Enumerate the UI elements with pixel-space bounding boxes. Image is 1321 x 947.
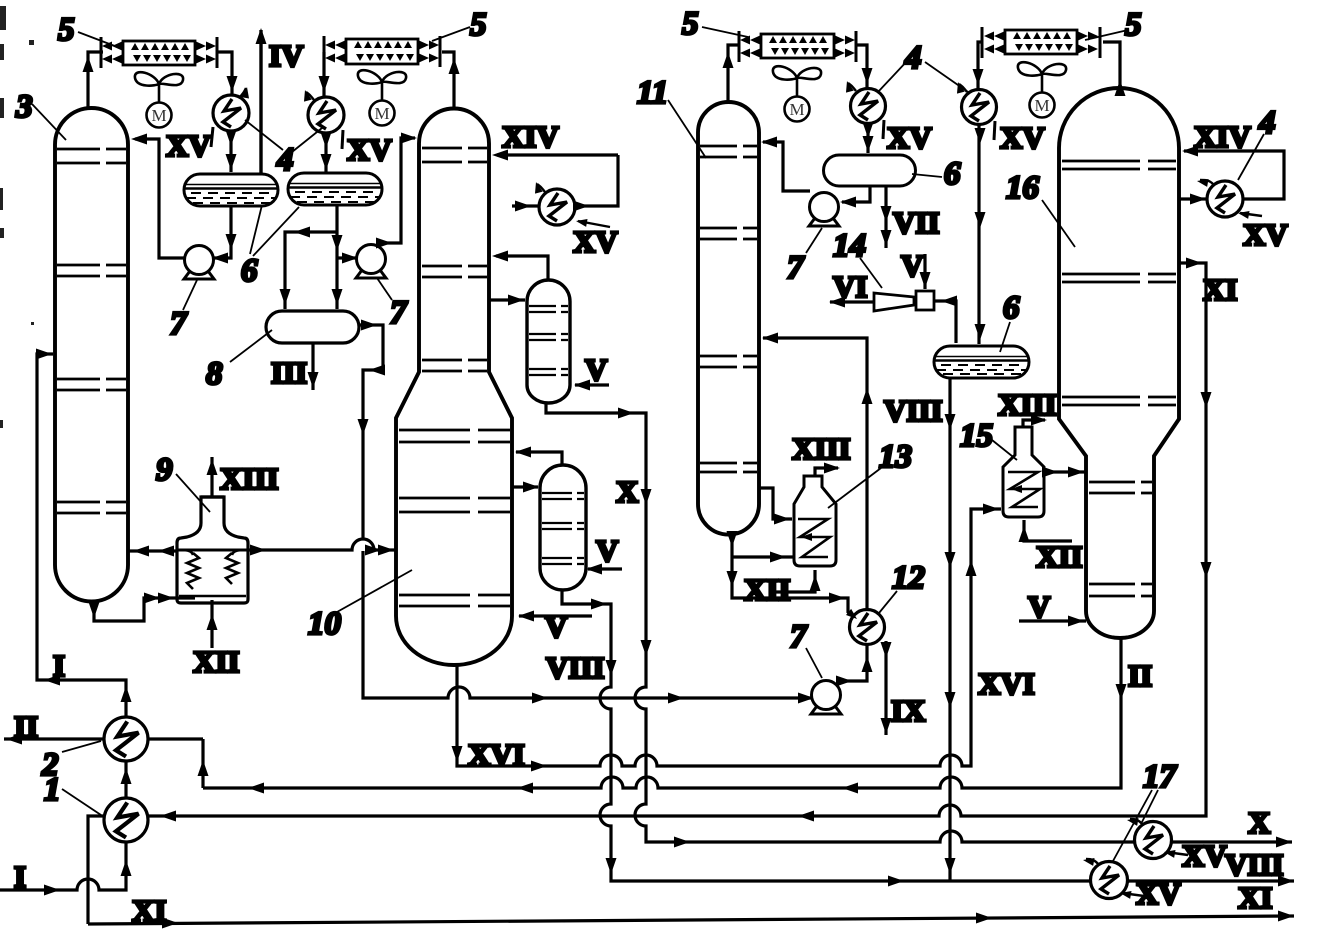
label 6 at drum #3 [912, 156, 961, 192]
svg-text:XI: XI [132, 893, 166, 928]
condenser 4 #B [954, 81, 996, 140]
svg-text:XIV: XIV [1194, 119, 1251, 154]
stream V into stripper 1 [574, 380, 609, 391]
svg-text:IX: IX [891, 693, 926, 728]
svg-text:VII: VII [893, 205, 940, 240]
fan and motor M #2 [358, 70, 406, 125]
wire stripper 2 overhead to column 10 [515, 447, 562, 466]
wire ejector suction from drum 6 #4 [934, 296, 957, 344]
wire stripper 1 bottoms (stream X) down [546, 403, 1292, 848]
column 11 trays [700, 146, 757, 472]
stream V into ejector [920, 254, 931, 289]
label 10 [308, 570, 412, 642]
svg-text:16: 16 [1006, 170, 1040, 206]
label 4 at heat exchanger 4 #C [1238, 105, 1276, 180]
pumparound wire column 16 to heat exchanger 4 #C [1179, 146, 1284, 205]
furnace 15 [1003, 427, 1044, 517]
svg-text:V: V [596, 533, 619, 568]
svg-text:V: V [901, 248, 924, 283]
condenser 4 #2 [301, 89, 344, 149]
stream XIII outlet of furnace 9 [207, 457, 218, 497]
svg-text:XIII: XIII [998, 387, 1057, 422]
svg-text:10: 10 [308, 606, 341, 642]
svg-text:XVI: XVI [978, 666, 1035, 701]
stream II outlet wire through HX2 [4, 734, 209, 789]
svg-text:XI: XI [1203, 272, 1237, 307]
svg-text:XV: XV [1182, 838, 1227, 873]
wire drum 6 #2 bottoms down to drum 8 [332, 206, 343, 309]
svg-text:II: II [14, 709, 38, 744]
label 13 [828, 439, 912, 508]
label 7 at pump #1 [170, 280, 197, 342]
fan and motor M #4 [1018, 62, 1066, 117]
svg-text:4: 4 [1258, 105, 1276, 141]
label 7 at pump #4 [790, 619, 822, 678]
heat exchanger 1 [104, 798, 148, 842]
wire drum 6 #1 to pump 7 #1 [212, 206, 237, 264]
wire column 16 overhead to air cooler 5 #4 [1103, 42, 1126, 96]
label 2 [41, 741, 101, 783]
heat exchanger 17 upper [1126, 816, 1188, 858]
drum 6 #2 (reflux drum with liquid) [288, 173, 382, 205]
label 4 (leaders to condensers A and B) [878, 40, 968, 92]
svg-text:VIII: VIII [546, 650, 605, 685]
label 6 (two leaders to drums) [241, 205, 299, 289]
svg-text:XV: XV [887, 120, 932, 155]
svg-text:XV: XV [166, 128, 211, 163]
furnace 13 [794, 476, 836, 566]
wire stripper 1 overhead to column 10 [492, 251, 548, 281]
air cooler 5 #3 [739, 31, 856, 62]
wire condenser 4 #A to drum 6 #3 [863, 122, 874, 153]
label 9 [156, 452, 210, 512]
svg-text:11: 11 [637, 75, 668, 111]
svg-text:X: X [616, 474, 639, 509]
svg-text:XII: XII [744, 572, 791, 607]
wire column 10 draw to stripper 2 [512, 482, 539, 493]
wire condenser 4 #B to drum 6 #4 [975, 125, 986, 344]
svg-text:XV: XV [1243, 217, 1288, 252]
svg-text:9: 9 [156, 452, 173, 488]
svg-text:XII: XII [193, 644, 240, 679]
pump 7 #3 [809, 193, 839, 227]
svg-text:6: 6 [1003, 290, 1020, 326]
svg-text:5: 5 [470, 7, 487, 43]
label 12 [879, 560, 925, 613]
svg-text:V: V [545, 609, 568, 644]
svg-text:7: 7 [170, 306, 188, 342]
wire furnace 15 outlet to column 16 [1042, 467, 1086, 478]
fan and motor M #1 [135, 72, 183, 127]
wire air cooler to condenser 4 #1 [217, 52, 238, 96]
label 15 [960, 418, 1017, 460]
svg-text:XV: XV [347, 132, 392, 167]
svg-text:3: 3 [15, 89, 33, 125]
svg-text:17: 17 [1143, 759, 1178, 795]
label 7 at pump #3 [787, 228, 822, 286]
svg-text:5: 5 [682, 6, 699, 42]
reflux wire pump 7 #3 to column 11 top [761, 137, 810, 192]
svg-text:XIV: XIV [502, 119, 559, 154]
svg-text:VI: VI [833, 269, 867, 304]
svg-text:6: 6 [944, 156, 961, 192]
stream XII into furnace 15 [1019, 520, 1073, 542]
air cooler 5 #1 [101, 37, 217, 68]
svg-text:II: II [1128, 658, 1152, 693]
label 14 [833, 228, 882, 288]
label 5 #4 [1085, 7, 1142, 43]
furnace 9 outlet wire to column 10 [248, 539, 396, 556]
heat exchanger 17 lower [1082, 856, 1144, 899]
furnace 9 outlet wire to column 3 [128, 546, 177, 557]
condenser 4 #1 [211, 86, 251, 147]
column 3 trays [57, 149, 126, 513]
wire drum 6 #3 to pump 7 #3 [840, 186, 870, 208]
heat exchanger 4 #3 [532, 181, 610, 227]
wire air cooler #3 to condenser 4 #A [856, 45, 873, 89]
wire air cooler #4 to condenser 4 #B [973, 42, 984, 90]
label 6 at drum #4 [1000, 290, 1020, 352]
wire column 11 bottoms to furnace 13 and heat exchanger 12 [727, 531, 860, 622]
column 11 [698, 102, 759, 535]
svg-text:VIII: VIII [884, 393, 943, 428]
wire air cooler #2 to condenser 4 #2 [319, 52, 330, 97]
drum 6 #1 (reflux drum with liquid) [184, 174, 278, 206]
label 11 [637, 75, 706, 158]
label 7 at pump #2 [377, 278, 408, 331]
svg-text:X: X [1248, 805, 1271, 840]
pump 7 #4 [811, 681, 841, 715]
wire column 10 overhead to air cooler 5 #2 [442, 52, 460, 108]
condenser 4 #A [843, 80, 885, 139]
stream XIII from furnace 13 [815, 463, 840, 477]
wire drum 6 #2 to pump 7 #2 [337, 253, 358, 264]
label 17 with leaders [1113, 759, 1178, 861]
heat exchanger 4 #C [1196, 177, 1262, 219]
stream VIII from drum 6 #4 [945, 378, 956, 881]
stream XII into furnace 13 [769, 570, 821, 592]
svg-text:5: 5 [58, 12, 75, 48]
fan and motor M #3 [773, 66, 821, 121]
svg-text:I: I [14, 859, 26, 894]
svg-text:III: III [271, 355, 307, 390]
svg-text:XIII: XIII [792, 431, 851, 466]
drum 6 #4 (with liquid) [934, 346, 1029, 378]
wire HX2 to column 3 feed [36, 349, 132, 718]
wire column 10 bottoms (stream XVI) [452, 504, 1002, 772]
wire column 11 feed via heat exchanger 12 [762, 333, 873, 625]
side stripper 2 trays [542, 493, 584, 564]
svg-text:12: 12 [892, 560, 925, 596]
label 1 [44, 772, 101, 815]
label 8 [206, 330, 272, 392]
stream I feed inlet wire [0, 842, 132, 896]
svg-text:1: 1 [44, 772, 61, 808]
svg-text:15: 15 [960, 418, 993, 454]
svg-text:4: 4 [904, 40, 922, 76]
wire HX1 to HX2 [121, 761, 132, 798]
label 3 [15, 89, 66, 140]
wire column 11 side draw to furnace 13 [759, 488, 792, 525]
pump 7 #1 [184, 246, 214, 280]
side stripper 1 trays [529, 306, 568, 375]
stream IX from heat exchanger 12 [881, 641, 892, 735]
svg-text:XIII: XIII [220, 461, 279, 496]
wire column 3 bottoms to furnace 9 [89, 593, 196, 622]
stream V into column 16 [1019, 616, 1086, 627]
wire column 3 overhead to air cooler [83, 52, 104, 108]
wire column 11 overhead to air cooler 5 #3 [723, 45, 741, 102]
svg-text:7: 7 [390, 295, 408, 331]
svg-text:7: 7 [790, 619, 808, 655]
side stripper 2 [540, 465, 586, 590]
column 3 [55, 108, 128, 602]
stream III from drum 8 [308, 343, 319, 390]
air cooler 5 #2 [324, 36, 440, 67]
svg-text:XVI: XVI [468, 737, 525, 772]
svg-text:XV: XV [573, 224, 618, 259]
svg-text:V: V [1028, 589, 1051, 624]
svg-text:IV: IV [269, 38, 304, 73]
label 16 [1006, 170, 1075, 247]
label 5 #2 [432, 7, 487, 43]
stream XIII from furnace 15 [1023, 415, 1047, 428]
svg-text:5: 5 [1125, 7, 1142, 43]
stream V into stripper 2 [586, 564, 622, 575]
reflux wire pump 7 #2 to column 10 top [376, 133, 417, 249]
wire condenser 4 #1 to drum 6 #1 [226, 130, 237, 172]
svg-text:VIII: VIII [1225, 847, 1284, 882]
svg-text:V: V [585, 352, 608, 387]
furnace 9 [177, 497, 248, 603]
wire drum 6 #2 to drum 8 (left branch) [280, 227, 338, 310]
wire pump 7 #4 to heat exchanger 12 [836, 645, 873, 687]
heat exchanger 12 [850, 610, 885, 645]
stream XIV line into column 10 [492, 150, 618, 161]
stream VI from ejector [829, 297, 874, 308]
svg-text:6: 6 [241, 253, 258, 289]
column 10 [396, 109, 512, 666]
drum 8 [266, 311, 359, 343]
label 5 #3 [682, 6, 748, 42]
pump 7 #2 [356, 245, 386, 279]
svg-text:XV: XV [1136, 876, 1181, 911]
stream V into column 10 bottom [518, 611, 592, 622]
stream XI bottom run [88, 911, 1294, 929]
wire stripper 2 bottoms (stream VIII) down [562, 590, 1294, 887]
drum 6 #3 [824, 155, 916, 186]
stream XI side draw from column 16 [88, 258, 1212, 925]
reflux wire pump 7 #1 to column 3 top [131, 134, 184, 259]
svg-text:7: 7 [787, 250, 805, 286]
ejector 14 [874, 291, 934, 311]
stream VII from drum 6 #3 [881, 186, 892, 248]
side stripper 1 [527, 280, 570, 403]
svg-text:XI: XI [1238, 880, 1272, 915]
column 10 trays [399, 148, 510, 606]
stream II from column 16 bottoms [203, 638, 1127, 794]
svg-text:8: 8 [206, 356, 223, 392]
svg-text:13: 13 [879, 439, 912, 475]
svg-text:XII: XII [1036, 539, 1083, 574]
wire column 10 draw to stripper 1 [489, 295, 525, 306]
stream IV riser from drum 6 #1 [256, 28, 267, 174]
svg-text:XV: XV [1000, 120, 1045, 155]
svg-text:I: I [53, 648, 65, 683]
pumparound wire column 10 to heat exchanger 4 #3 [512, 155, 618, 212]
label 4 (two leaders to condensers) [245, 120, 322, 178]
wire drum 8 to bottom pump manifold [358, 320, 815, 704]
column 16 trays [1062, 161, 1176, 596]
stream XII inlet to furnace 9 [207, 600, 218, 648]
heat exchanger 2 [104, 717, 148, 761]
scan noise specks [0, 6, 34, 428]
label 5 #1 [58, 12, 120, 48]
wire condenser 4 #2 to drum 6 #2 [321, 132, 332, 172]
column 16 [1059, 88, 1179, 638]
air cooler 5 #4 [982, 27, 1100, 58]
